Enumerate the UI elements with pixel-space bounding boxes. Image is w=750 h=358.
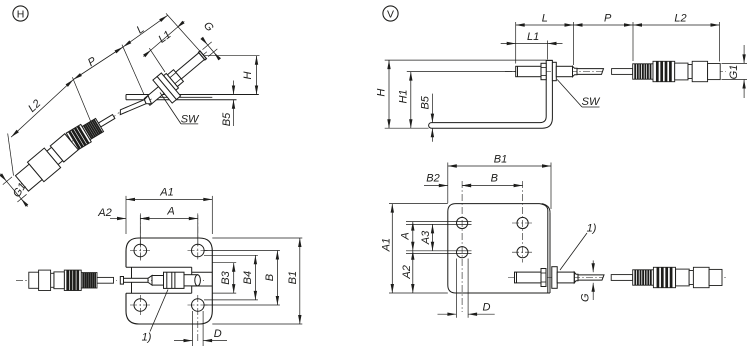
hole row centerlines (right col) (512, 222, 533, 224)
conduit tail B (rotated 40deg) (13, 131, 81, 194)
svg-text:B3: B3 (220, 270, 232, 284)
washer right of plate (552, 62, 556, 80)
dim B1 (447, 163, 449, 204)
holes (457, 217, 468, 228)
dim A2 (110, 218, 126, 220)
svg-text:1): 1) (587, 223, 597, 235)
wire rod (124, 278, 149, 282)
svg-text:G: G (580, 293, 592, 302)
svg-text:D: D (483, 302, 491, 314)
note 1) (150, 290, 168, 332)
taper cap (574, 272, 578, 283)
svg-text:P: P (604, 12, 612, 24)
dim chain L2 (11, 80, 73, 138)
rod (152, 276, 164, 286)
svg-text:H: H (17, 9, 25, 21)
dim B2 (424, 185, 448, 187)
svg-text:A1: A1 (381, 238, 393, 252)
threaded rod assembly (rotated 40deg) (139, 42, 218, 115)
svg-text:B1: B1 (287, 271, 299, 284)
dim B5 (233, 81, 235, 95)
svg-text:A1: A1 (159, 187, 173, 199)
svg-text:SW: SW (582, 96, 601, 108)
washer (552, 267, 557, 289)
wire end ferrule (120, 277, 123, 285)
svg-text:G1: G1 (728, 65, 740, 80)
svg-text:A2: A2 (97, 207, 111, 219)
cable centerline (508, 277, 603, 279)
svg-text:1): 1) (142, 332, 152, 344)
svg-text:A: A (400, 232, 412, 240)
svg-text:B4: B4 (242, 271, 254, 284)
svg-text:B5: B5 (221, 112, 233, 126)
extension lines of dim chain (8, 134, 14, 176)
conduit tail A (rotated 31deg) (66, 107, 121, 151)
cable centerline (505, 71, 602, 73)
bracket V: L-shaped sheet (429, 60, 553, 128)
dim B (204, 250, 280, 252)
dim G (203, 42, 212, 50)
dim H (385, 59, 547, 61)
dim D (192, 311, 194, 346)
conduit tail (mirrored) (97, 277, 114, 283)
nut (541, 269, 546, 287)
flat plate edge-on (126, 94, 259, 96)
svg-text:V: V (387, 9, 394, 21)
svg-text:A2: A2 (401, 265, 413, 279)
bend lines right edge (547, 211, 549, 294)
svg-text:H: H (375, 89, 387, 97)
svg-text:L1: L1 (527, 31, 539, 43)
flat plate top view (126, 238, 212, 324)
label SW (181, 123, 198, 125)
dim A2 (412, 251, 414, 293)
hex fitting block (164, 272, 185, 288)
svg-text:B1: B1 (494, 153, 507, 165)
dim B3 (212, 262, 236, 264)
holes (134, 244, 147, 257)
hole column centerlines (461, 181, 463, 312)
hex sleeve (557, 272, 574, 283)
wire rod with slant cut (577, 69, 604, 75)
nut left of plate (541, 63, 546, 79)
dim L1 (547, 41, 549, 60)
dim A1 (125, 196, 127, 234)
pocket recess (126, 266, 192, 268)
dim chain L (123, 15, 168, 47)
pull rod in pocket (184, 275, 198, 286)
dim L1 (143, 50, 151, 57)
svg-text:SW: SW (181, 114, 200, 126)
dim B5 (431, 94, 433, 123)
svg-text:H1: H1 (398, 89, 410, 103)
svg-text:B: B (264, 274, 276, 281)
view label H (13, 6, 28, 21)
svg-text:L: L (542, 12, 548, 24)
note 1) (560, 233, 587, 270)
wire rod right of gap + conduit tail (612, 69, 633, 75)
dim A (139, 215, 141, 246)
hex sleeve SW (556, 66, 572, 76)
taper cap (573, 66, 578, 76)
svg-text:B2: B2 (426, 173, 439, 185)
dim G1 (722, 62, 748, 64)
dim A3 (432, 224, 434, 250)
label SW (582, 106, 600, 108)
wire rod slant (578, 275, 604, 280)
dim L2 (719, 22, 721, 62)
dim D (455, 259, 457, 318)
threaded rod (516, 66, 541, 76)
wire rod 2 + conduit tail (611, 275, 633, 281)
dim L (515, 22, 517, 64)
lower thin rod (rotated 23deg) (115, 95, 153, 118)
dim A1 (389, 203, 448, 205)
dim chain P (73, 47, 123, 80)
dim H1 (407, 71, 516, 73)
dim B1 (212, 237, 302, 239)
threaded rod (515, 272, 542, 283)
svg-text:H: H (242, 71, 254, 79)
view label V (383, 6, 398, 21)
pocket floor edge-on (149, 96, 212, 98)
slot marks left holes (406, 221, 472, 223)
bracket plate front view (448, 204, 546, 293)
dim G (592, 260, 594, 272)
dim H (204, 55, 260, 57)
dim B (462, 185, 522, 187)
svg-text:B: B (491, 173, 498, 185)
svg-text:L2: L2 (674, 12, 686, 24)
taper (148, 276, 152, 286)
slot to plate edge (192, 271, 213, 273)
svg-text:B5: B5 (419, 95, 431, 109)
dim A (412, 222, 414, 251)
dim P (632, 22, 634, 61)
cable centerline (16, 279, 117, 281)
hole centerlines (139, 241, 141, 261)
dim B4 (204, 254, 258, 256)
svg-text:D: D (214, 328, 222, 340)
dim G1 (3, 177, 12, 185)
svg-text:A: A (166, 206, 174, 218)
svg-text:A3: A3 (420, 230, 432, 245)
